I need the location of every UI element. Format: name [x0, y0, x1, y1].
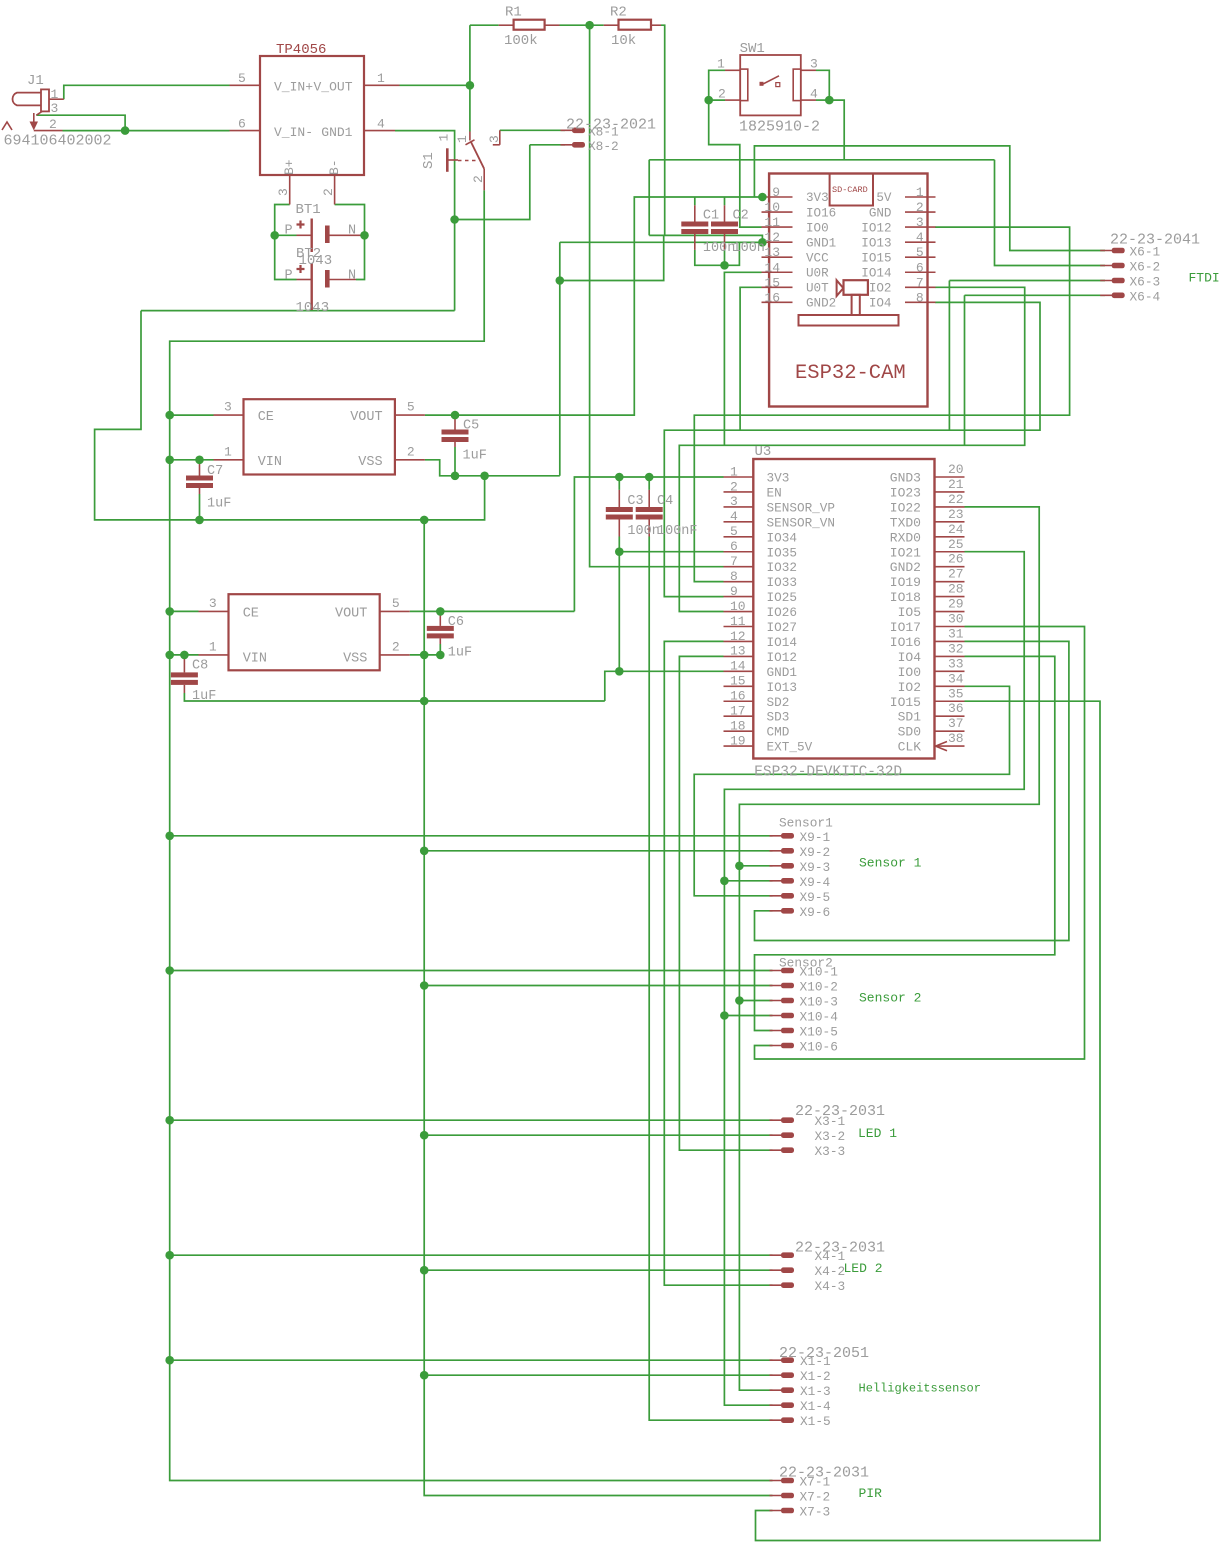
svg-text:SD3: SD3 [767, 710, 790, 725]
svg-text:X9-2: X9-2 [800, 845, 831, 860]
svg-text:26: 26 [948, 552, 964, 567]
svg-text:3: 3 [276, 188, 291, 196]
svg-text:12: 12 [764, 230, 780, 245]
svg-text:3: 3 [916, 215, 924, 230]
svg-text:X7-2: X7-2 [800, 1490, 831, 1505]
svg-text:IO35: IO35 [767, 545, 797, 560]
svg-text:GND2: GND2 [806, 297, 836, 311]
svg-text:17: 17 [730, 704, 746, 719]
svg-text:1uF: 1uF [207, 497, 231, 512]
svg-text:28: 28 [948, 582, 964, 597]
svg-text:GND1: GND1 [321, 125, 352, 140]
svg-text:X1-1: X1-1 [800, 1354, 831, 1369]
svg-text:100n: 100n [703, 241, 735, 256]
svg-text:4: 4 [377, 116, 385, 131]
svg-text:P: P [285, 224, 293, 239]
svg-text:13: 13 [764, 245, 780, 260]
svg-text:100k: 100k [504, 33, 538, 49]
svg-text:SW1: SW1 [740, 41, 765, 57]
svg-text:SD-CARD: SD-CARD [832, 185, 868, 195]
svg-text:1uF: 1uF [463, 449, 487, 464]
svg-text:ESP32-CAM: ESP32-CAM [795, 362, 906, 385]
svg-text:14: 14 [764, 260, 780, 275]
svg-text:2: 2 [730, 479, 738, 494]
svg-text:3: 3 [51, 101, 59, 116]
svg-text:VSS: VSS [343, 652, 367, 667]
svg-text:IO2: IO2 [898, 680, 921, 695]
svg-text:X4-3: X4-3 [815, 1279, 846, 1294]
svg-text:1: 1 [916, 185, 924, 200]
svg-text:24: 24 [948, 522, 964, 537]
svg-text:IO17: IO17 [890, 620, 921, 635]
svg-text:C7: C7 [207, 464, 223, 479]
svg-text:IO5: IO5 [898, 605, 921, 620]
svg-text:C1: C1 [703, 208, 719, 223]
svg-text:IO26: IO26 [767, 605, 797, 620]
svg-text:11: 11 [730, 614, 746, 629]
svg-text:5: 5 [392, 596, 400, 611]
svg-text:3V3: 3V3 [767, 471, 790, 486]
svg-text:1: 1 [51, 87, 59, 102]
svg-text:ESP32-DEVKITC-32D: ESP32-DEVKITC-32D [754, 765, 902, 781]
svg-text:10: 10 [730, 599, 746, 614]
svg-text:32: 32 [948, 641, 964, 656]
svg-text:Sensor 2: Sensor 2 [859, 991, 921, 1006]
svg-text:6: 6 [238, 116, 246, 131]
svg-text:P: P [285, 268, 293, 283]
svg-text:14: 14 [730, 659, 746, 674]
svg-text:X1-4: X1-4 [800, 1399, 831, 1414]
svg-text:EN: EN [767, 485, 782, 500]
svg-text:X9-1: X9-1 [800, 830, 831, 845]
svg-text:X9-5: X9-5 [800, 890, 831, 905]
svg-text:X1-3: X1-3 [800, 1384, 831, 1399]
svg-text:27: 27 [948, 567, 964, 582]
svg-text:RXD0: RXD0 [890, 530, 921, 545]
svg-text:SD1: SD1 [898, 710, 922, 725]
svg-text:Sensor 1: Sensor 1 [859, 856, 922, 871]
svg-text:IO0: IO0 [898, 665, 921, 680]
svg-text:100n: 100n [627, 524, 659, 539]
svg-text:IO4: IO4 [869, 297, 892, 311]
svg-text:2: 2 [407, 444, 415, 459]
svg-text:R2: R2 [610, 5, 627, 21]
svg-text:TP4056: TP4056 [276, 42, 326, 58]
svg-text:IO33: IO33 [767, 575, 797, 590]
svg-text:3: 3 [810, 57, 818, 72]
svg-text:X1-2: X1-2 [800, 1369, 831, 1384]
svg-text:IO32: IO32 [767, 560, 797, 575]
svg-text:PIR: PIR [859, 1486, 883, 1501]
svg-text:33: 33 [948, 656, 964, 671]
svg-text:15: 15 [730, 674, 746, 689]
svg-text:1: 1 [730, 464, 738, 479]
svg-text:1uF: 1uF [448, 646, 472, 661]
svg-text:6: 6 [916, 260, 924, 275]
svg-text:IO25: IO25 [767, 590, 797, 605]
svg-text:X4-2: X4-2 [815, 1264, 846, 1279]
svg-text:3V3: 3V3 [806, 191, 829, 205]
svg-text:36: 36 [948, 701, 964, 716]
svg-text:SENSOR_VP: SENSOR_VP [767, 500, 836, 515]
svg-text:X3-2: X3-2 [815, 1129, 846, 1144]
svg-text:U3: U3 [755, 444, 772, 460]
svg-text:13: 13 [730, 644, 746, 659]
svg-text:X9-3: X9-3 [800, 860, 831, 875]
svg-text:C4: C4 [657, 494, 673, 509]
svg-text:IO12: IO12 [861, 221, 891, 235]
svg-text:IO13: IO13 [861, 236, 891, 250]
svg-text:11: 11 [764, 215, 780, 230]
svg-text:CE: CE [258, 410, 274, 425]
svg-text:X8-2: X8-2 [588, 139, 619, 154]
svg-text:1043: 1043 [296, 300, 330, 316]
svg-text:IO0: IO0 [806, 221, 829, 235]
svg-text:2: 2 [718, 87, 726, 102]
svg-text:B+: B+ [282, 159, 297, 175]
svg-text:X10-3: X10-3 [800, 995, 838, 1010]
svg-text:IO13: IO13 [767, 680, 797, 695]
svg-text:1: 1 [455, 135, 470, 143]
svg-text:4: 4 [730, 509, 738, 524]
svg-text:IO12: IO12 [767, 650, 797, 665]
svg-text:IO22: IO22 [890, 500, 921, 515]
svg-text:31: 31 [948, 626, 964, 641]
svg-text:X8-1: X8-1 [588, 124, 619, 139]
svg-text:VOUT: VOUT [335, 607, 367, 622]
svg-text:GND1: GND1 [806, 236, 836, 250]
svg-text:15: 15 [764, 275, 780, 290]
svg-text:C3: C3 [627, 494, 643, 509]
svg-text:1825910-2: 1825910-2 [739, 119, 820, 136]
svg-text:X7-3: X7-3 [800, 1505, 831, 1520]
svg-text:X6-4: X6-4 [1130, 289, 1161, 304]
svg-text:TXD0: TXD0 [890, 515, 921, 530]
svg-text:SD0: SD0 [898, 725, 921, 740]
svg-text:X9-6: X9-6 [800, 905, 831, 920]
svg-text:5: 5 [238, 71, 246, 86]
svg-text:X6-2: X6-2 [1130, 260, 1161, 275]
svg-text:B-: B- [327, 159, 342, 175]
svg-text:21: 21 [948, 477, 964, 492]
svg-text:LED 2: LED 2 [844, 1261, 883, 1276]
svg-text:6: 6 [730, 539, 738, 554]
svg-text:N: N [348, 268, 356, 283]
svg-text:GND2: GND2 [890, 560, 921, 575]
svg-text:IO27: IO27 [767, 620, 797, 635]
svg-text:1: 1 [209, 640, 217, 655]
svg-text:U0T: U0T [806, 282, 829, 296]
svg-text:1043: 1043 [299, 253, 333, 269]
svg-text:1uF: 1uF [192, 689, 216, 704]
svg-text:X10-1: X10-1 [800, 965, 839, 980]
svg-text:10: 10 [764, 200, 780, 215]
svg-text:3: 3 [730, 494, 738, 509]
svg-text:25: 25 [948, 537, 964, 552]
svg-text:IO23: IO23 [890, 485, 921, 500]
svg-text:1: 1 [437, 134, 452, 142]
svg-text:3: 3 [209, 596, 217, 611]
svg-text:20: 20 [948, 462, 964, 477]
svg-text:IO19: IO19 [890, 575, 921, 590]
svg-text:30: 30 [948, 612, 964, 627]
svg-text:C2: C2 [733, 208, 749, 223]
svg-text:37: 37 [948, 716, 964, 731]
svg-text:16: 16 [764, 290, 780, 305]
svg-text:X10-4: X10-4 [800, 1010, 839, 1025]
svg-text:IO15: IO15 [861, 251, 891, 265]
svg-text:IO21: IO21 [890, 545, 921, 560]
svg-text:SENSOR_VN: SENSOR_VN [767, 515, 836, 530]
svg-text:IO2: IO2 [869, 282, 892, 296]
svg-text:SD2: SD2 [767, 695, 790, 710]
svg-text:Sensor1: Sensor1 [779, 816, 833, 831]
svg-text:12: 12 [730, 629, 746, 644]
svg-text:IO34: IO34 [767, 530, 797, 545]
svg-text:EXT_5V: EXT_5V [767, 740, 813, 755]
svg-text:16: 16 [730, 689, 746, 704]
svg-text:9: 9 [772, 185, 780, 200]
svg-text:X6-3: X6-3 [1130, 275, 1161, 290]
svg-text:2: 2 [321, 188, 336, 196]
svg-text:100nF: 100nF [657, 524, 698, 539]
svg-text:VCC: VCC [806, 251, 829, 265]
svg-text:VSS: VSS [358, 455, 382, 470]
svg-text:N: N [348, 224, 356, 239]
svg-text:VIN: VIN [243, 652, 267, 667]
svg-text:4: 4 [810, 87, 818, 102]
svg-text:5: 5 [730, 524, 738, 539]
svg-text:V_IN+: V_IN+ [274, 80, 313, 95]
svg-text:8: 8 [730, 569, 738, 584]
svg-text:X10-5: X10-5 [800, 1025, 838, 1040]
svg-text:V_IN-: V_IN- [274, 125, 313, 140]
svg-text:29: 29 [948, 597, 964, 612]
svg-text:IO16: IO16 [890, 635, 921, 650]
svg-text:X10-6: X10-6 [800, 1040, 838, 1055]
svg-text:2: 2 [392, 640, 400, 655]
svg-text:C6: C6 [448, 615, 464, 630]
svg-text:1: 1 [717, 57, 725, 72]
svg-text:10k: 10k [611, 33, 636, 49]
svg-text:694106402002: 694106402002 [4, 133, 112, 150]
svg-text:100n: 100n [733, 241, 765, 256]
svg-text:23: 23 [948, 507, 964, 522]
svg-text:X1-5: X1-5 [800, 1414, 831, 1429]
svg-text:IO14: IO14 [861, 266, 891, 280]
svg-text:5: 5 [916, 245, 924, 260]
svg-text:C8: C8 [192, 659, 208, 674]
svg-text:X7-1: X7-1 [800, 1475, 831, 1490]
svg-text:19: 19 [730, 733, 746, 748]
svg-text:VOUT: VOUT [350, 410, 382, 425]
svg-text:7: 7 [916, 275, 924, 290]
svg-text:34: 34 [948, 671, 964, 686]
svg-text:3: 3 [224, 400, 232, 415]
svg-text:IO4: IO4 [898, 650, 922, 665]
svg-text:V_OUT: V_OUT [313, 80, 352, 95]
svg-text:X6-1: X6-1 [1130, 245, 1161, 260]
svg-text:GND3: GND3 [890, 471, 921, 486]
svg-text:35: 35 [948, 686, 964, 701]
svg-text:X9-4: X9-4 [800, 875, 831, 890]
svg-text:22: 22 [948, 492, 964, 507]
svg-text:GND1: GND1 [767, 665, 797, 680]
svg-text:GND: GND [869, 206, 892, 220]
svg-text:38: 38 [948, 731, 964, 746]
svg-text:CE: CE [243, 607, 259, 622]
svg-text:S1: S1 [421, 152, 437, 169]
svg-text:IO14: IO14 [767, 635, 797, 650]
svg-text:3: 3 [487, 135, 502, 143]
svg-text:18: 18 [730, 718, 746, 733]
svg-text:LED 1: LED 1 [858, 1126, 897, 1141]
svg-text:IO16: IO16 [806, 206, 836, 220]
svg-text:IO18: IO18 [890, 590, 921, 605]
svg-text:9: 9 [730, 584, 738, 599]
svg-text:X10-2: X10-2 [800, 980, 838, 995]
svg-text:C5: C5 [463, 419, 479, 434]
svg-text:1: 1 [224, 444, 232, 459]
svg-text:IO15: IO15 [890, 695, 921, 710]
svg-text:R1: R1 [505, 5, 522, 21]
svg-text:7: 7 [730, 554, 738, 569]
svg-text:X3-3: X3-3 [815, 1144, 846, 1159]
svg-text:1: 1 [377, 71, 385, 86]
svg-text:X4-1: X4-1 [815, 1249, 846, 1264]
svg-text:5: 5 [407, 400, 415, 415]
svg-text:4: 4 [916, 230, 924, 245]
svg-text:J1: J1 [27, 73, 44, 89]
svg-text:FTDI: FTDI [1189, 271, 1220, 286]
svg-text:8: 8 [916, 290, 924, 305]
svg-text:X3-1: X3-1 [815, 1114, 846, 1129]
svg-text:2: 2 [916, 200, 924, 215]
svg-text:CLK: CLK [898, 740, 922, 755]
svg-text:U0R: U0R [806, 266, 829, 280]
svg-text:2: 2 [471, 175, 486, 183]
svg-text:VIN: VIN [258, 455, 282, 470]
svg-text:5V: 5V [876, 191, 892, 205]
svg-text:Helligkeitssensor: Helligkeitssensor [859, 1382, 981, 1396]
svg-text:BT1: BT1 [296, 202, 321, 218]
svg-text:CMD: CMD [767, 725, 790, 740]
svg-text:2: 2 [49, 117, 57, 132]
